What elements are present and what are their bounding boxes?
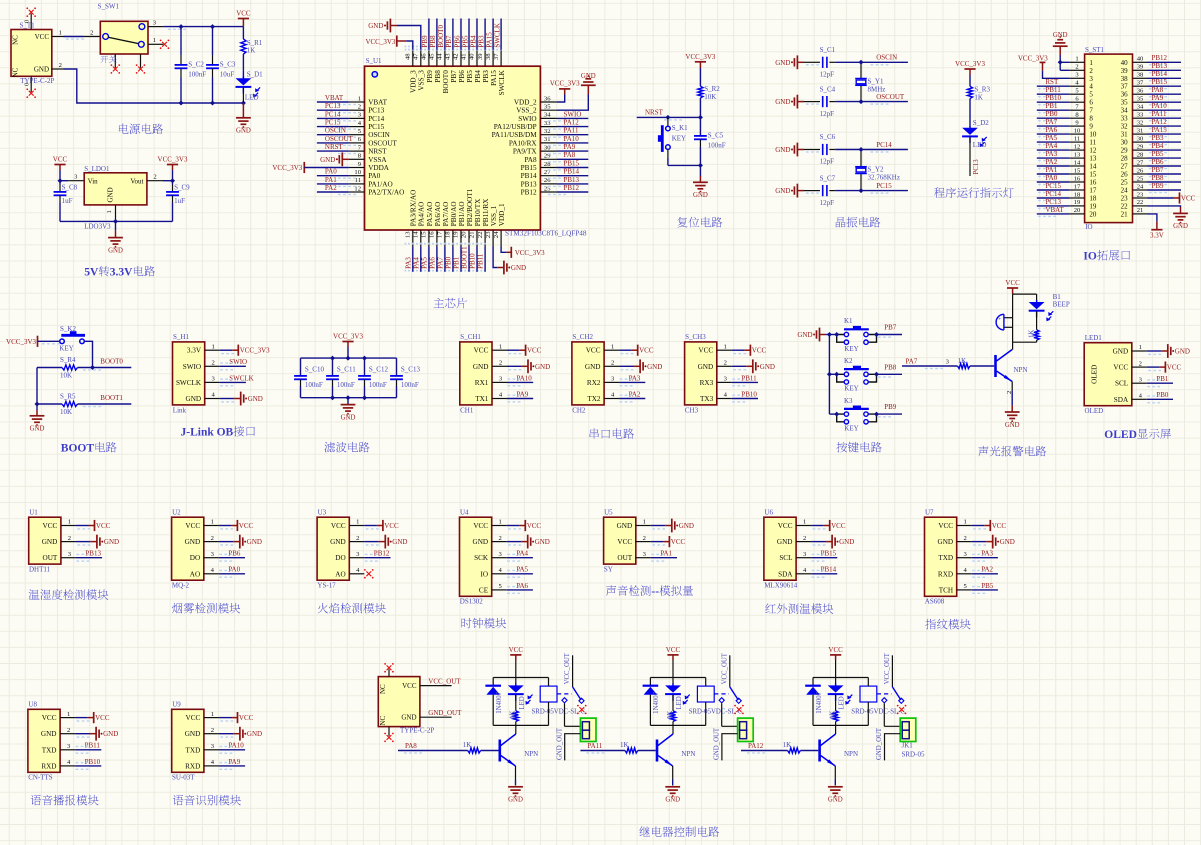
svg-text:DO: DO (190, 554, 200, 562)
svg-text:Link: Link (173, 406, 187, 414)
svg-text:U8: U8 (28, 701, 37, 709)
svg-text:GND: GND (1113, 348, 1129, 356)
svg-text:RXD: RXD (185, 762, 200, 770)
svg-text:GND: GND (185, 730, 201, 738)
svg-text:15: 15 (1074, 167, 1081, 174)
wire NRST (637, 108, 701, 120)
op-amp U1 main chip body S_U1 (365, 57, 587, 237)
svg-text:U3: U3 (318, 508, 327, 516)
caption 温湿度检测模块 (29, 589, 109, 600)
svg-text:PA10: PA10 (564, 135, 580, 143)
svg-text:37: 37 (1137, 80, 1144, 87)
terminal block stage PA8 (556, 703, 596, 760)
svg-text:LED: LED (839, 696, 846, 709)
relay switch stage PA12 (882, 652, 904, 703)
svg-text:PB14: PB14 (521, 172, 537, 180)
svg-text:36: 36 (1121, 91, 1129, 99)
svg-text:PB10: PB10 (741, 390, 757, 398)
svg-text:PB5: PB5 (466, 70, 474, 83)
svg-text:1N4007: 1N4007 (496, 691, 503, 714)
svg-text:VCC: VCC (671, 538, 686, 546)
svg-text:3.3V: 3.3V (110, 267, 133, 279)
svg-text:AO: AO (335, 570, 345, 578)
svg-text:GND: GND (42, 538, 58, 546)
svg-text:31: 31 (1137, 127, 1144, 134)
svg-text:28: 28 (1121, 155, 1129, 163)
svg-text:PB1: PB1 (453, 256, 461, 269)
svg-text:VCC: VCC (42, 714, 57, 722)
caption 电源电路 (119, 124, 163, 134)
svg-text:VSS_1: VSS_1 (490, 205, 498, 226)
svg-text:22: 22 (1137, 199, 1144, 206)
terminal block stage PA12 (876, 703, 916, 760)
svg-text:1K: 1K (1028, 330, 1035, 338)
diode 1N4007 relay stage PA8 (485, 678, 503, 726)
svg-text:3.3V: 3.3V (187, 347, 202, 355)
svg-text:PB3: PB3 (482, 70, 490, 83)
resistor 1K alarm (1028, 330, 1039, 343)
wire net PB10 at S_CH3 pin 4 (685, 333, 732, 414)
IO right net wires (1148, 54, 1182, 193)
svg-text:13: 13 (405, 231, 412, 238)
svg-text:VCC_OUT: VCC_OUT (721, 652, 728, 684)
svg-text:GND: GND (392, 538, 407, 546)
svg-text:PA3: PA3 (1045, 150, 1057, 158)
caption 语音识别模块 (173, 795, 241, 806)
svg-text:PB1: PB1 (1045, 102, 1058, 110)
svg-text:GND: GND (473, 538, 489, 546)
svg-text:VCC: VCC (752, 347, 767, 355)
svg-text:PA8: PA8 (405, 742, 417, 750)
svg-text:37: 37 (1121, 83, 1129, 91)
svg-text:35: 35 (1137, 96, 1144, 103)
svg-text:PA7/AO: PA7/AO (442, 202, 450, 227)
wire VCC to LDO Vin (60, 170, 84, 181)
svg-text:S_LDO1: S_LDO1 (84, 165, 110, 173)
svg-text:32: 32 (1137, 119, 1144, 126)
svg-text:VCC_3V3: VCC_3V3 (240, 347, 270, 355)
svg-text:GND: GND (585, 363, 601, 371)
svg-text:S_C8: S_C8 (62, 184, 78, 192)
svg-text:1: 1 (211, 711, 214, 718)
caption 按键电路 (836, 442, 881, 453)
svg-text:OSCOUT: OSCOUT (368, 139, 397, 147)
svg-text:16: 16 (1074, 175, 1081, 182)
svg-text:RXD: RXD (938, 570, 953, 578)
svg-text:PA0: PA0 (325, 168, 337, 176)
svg-text:PB6: PB6 (228, 550, 241, 558)
svg-text:VCC: VCC (96, 522, 111, 530)
svg-text:STM32F103C8T6_LQFP48: STM32F103C8T6_LQFP48 (505, 229, 587, 237)
svg-text:MLX90614: MLX90614 (764, 582, 798, 590)
svg-text:BOOT: BOOT (61, 443, 95, 455)
svg-text:S_C7: S_C7 (820, 174, 836, 182)
svg-text:SY: SY (604, 566, 613, 574)
svg-text:1: 1 (1075, 56, 1078, 63)
wire relay top rail (493, 677, 548, 679)
svg-text:1: 1 (964, 519, 967, 526)
no-ERC marker relay connector bottom (384, 733, 394, 743)
svg-text:1K: 1K (510, 711, 517, 719)
svg-text:1K: 1K (829, 711, 836, 719)
svg-text:S_C12: S_C12 (369, 365, 389, 373)
svg-text:1: 1 (643, 519, 646, 526)
svg-text:RX2: RX2 (587, 379, 601, 387)
wire base PA12 (741, 741, 818, 754)
svg-text:S_U1: S_U1 (366, 57, 382, 65)
svg-text:S_K1: S_K1 (672, 124, 688, 132)
svg-text:1N4007: 1N4007 (653, 691, 660, 714)
svg-text:PB15: PB15 (821, 550, 837, 558)
svg-text:1: 1 (59, 29, 62, 36)
svg-text:PC13: PC13 (325, 102, 341, 110)
svg-text:PA4/AO: PA4/AO (418, 202, 426, 227)
ground GND at S_H1 pin 4 (173, 333, 220, 414)
power VCC relay stage PA11 (666, 646, 681, 660)
svg-text:VCC_3V3: VCC_3V3 (272, 164, 302, 172)
svg-text:GND_OUT: GND_OUT (556, 727, 563, 760)
svg-text:GND: GND (581, 73, 596, 80)
svg-text:GND: GND (665, 797, 680, 804)
capacitor S_C6 and crystal S_Y2 32.768KHz (775, 133, 908, 166)
svg-text:1: 1 (724, 343, 727, 350)
svg-text:PA12/USB/DP: PA12/USB/DP (494, 123, 537, 131)
svg-text:DO: DO (335, 554, 345, 562)
svg-text:24: 24 (1137, 183, 1144, 190)
relay coil stage PA8 (532, 678, 586, 726)
svg-text:PA2: PA2 (981, 566, 993, 574)
svg-text:34: 34 (1121, 107, 1129, 115)
svg-text:PB10: PB10 (469, 253, 477, 269)
wire base PA11 (580, 741, 655, 754)
svg-text:BOOT1: BOOT1 (461, 246, 469, 269)
svg-text:PA2: PA2 (1045, 158, 1057, 166)
svg-text:30: 30 (1121, 139, 1129, 147)
svg-text:12: 12 (1089, 147, 1097, 155)
ground GND boot (30, 410, 45, 433)
svg-text:PA3: PA3 (981, 550, 993, 558)
caption 晶振电路 (836, 217, 881, 228)
svg-text:S_C3: S_C3 (220, 61, 236, 69)
svg-text:OSCOUT: OSCOUT (876, 93, 905, 101)
svg-text:PB6: PB6 (458, 70, 466, 83)
svg-text:PB10: PB10 (1045, 94, 1061, 102)
svg-text:SRD-05VDC-SL-C: SRD-05VDC-SL-C (689, 708, 743, 715)
svg-text:PB6: PB6 (453, 35, 461, 48)
wire relay top rail (813, 677, 868, 679)
svg-text:24: 24 (1121, 187, 1129, 195)
svg-text:U2: U2 (172, 508, 181, 516)
svg-text:LED: LED (676, 696, 683, 709)
svg-text:NC: NC (12, 35, 20, 45)
wire alarm top rail (1013, 293, 1037, 295)
wire net PA2 at S_CH2 pin 4 (572, 333, 619, 414)
svg-text:SWCLK: SWCLK (176, 379, 202, 387)
wire net PA6 at U4 pin 5 (460, 508, 507, 605)
svg-text:36: 36 (544, 95, 551, 102)
svg-text:PB3: PB3 (1152, 134, 1165, 142)
svg-text:LDO3V3: LDO3V3 (84, 223, 111, 231)
svg-text:GND: GND (185, 538, 201, 546)
svg-text:GND: GND (401, 714, 416, 722)
svg-text:VCC: VCC (331, 522, 346, 530)
no-ERC marker relay switch (734, 705, 744, 715)
svg-text:VCC: VCC (639, 347, 654, 355)
svg-text:PB10: PB10 (85, 758, 101, 766)
svg-text:TXD: TXD (186, 746, 201, 754)
svg-text:SRD-05VDC-SL-C: SRD-05VDC-SL-C (532, 708, 586, 715)
svg-text:18: 18 (1074, 191, 1081, 198)
junction button K3 right (874, 412, 879, 417)
push button K2 KEY (829, 357, 876, 393)
svg-text:14: 14 (1074, 159, 1081, 166)
chip pin stubs (349, 50, 557, 247)
svg-text:PB11: PB11 (85, 742, 101, 750)
buzzer B1 BEEP (996, 293, 1070, 342)
wire S_T1 GND to bottom rail (52, 62, 244, 103)
svg-text:PA2: PA2 (629, 390, 641, 398)
wire net PB10 at U8 pin 4 (28, 701, 75, 782)
regulator S_LDO1 LDO3V3 (84, 165, 147, 231)
svg-text:4: 4 (1089, 83, 1093, 91)
svg-text:S_C13: S_C13 (401, 365, 421, 373)
caption OLED显示屏 (1104, 429, 1171, 441)
junction button K2 right (874, 372, 879, 377)
wire net PA9 at S_CH1 pin 4 (460, 333, 507, 414)
svg-text:PC14: PC14 (325, 110, 341, 118)
svg-text:PA0: PA0 (1045, 174, 1057, 182)
svg-text:S_R3: S_R3 (974, 86, 990, 94)
transistor Q1 NPN alarm (996, 342, 1028, 381)
svg-text:SDA: SDA (778, 570, 793, 578)
svg-text:18: 18 (1089, 195, 1097, 203)
ground GND at chip VSS_2 pin 35 (557, 73, 596, 110)
wire net PA1 at U5 pin 3 (604, 508, 651, 573)
junction PC14 (859, 147, 864, 152)
svg-text:S_Y2: S_Y2 (868, 166, 884, 174)
svg-text:22: 22 (477, 232, 484, 239)
svg-text:PB15: PB15 (1152, 78, 1168, 86)
svg-text:14: 14 (1089, 163, 1097, 171)
svg-text:48: 48 (405, 53, 412, 60)
ground GND filter (341, 398, 356, 422)
svg-text:27: 27 (1121, 163, 1129, 171)
connector S_ST1 IO expansion (1085, 46, 1133, 231)
capacitor S_C10 100nF (294, 358, 324, 398)
svg-text:VCC: VCC (236, 10, 251, 18)
LED relay stage PA12 (828, 678, 853, 711)
svg-text:PA10: PA10 (1152, 102, 1168, 110)
svg-text:CH3: CH3 (685, 406, 699, 414)
svg-text:OSCIN: OSCIN (325, 127, 346, 135)
no-ERC marker top of S_T1 (26, 7, 36, 17)
capacitor S_C13 100nF (390, 358, 420, 398)
svg-text:6: 6 (1089, 99, 1093, 107)
svg-text:2: 2 (724, 360, 727, 367)
svg-text:PB12: PB12 (374, 550, 390, 558)
svg-text:DHT11: DHT11 (29, 566, 51, 574)
svg-text:17: 17 (1089, 187, 1097, 195)
caption 时钟模块 (462, 618, 507, 628)
svg-text:OLED: OLED (1085, 407, 1104, 415)
svg-text:GND: GND (775, 187, 790, 195)
wire relay bottom rail (493, 724, 548, 726)
svg-text:VCC_3V3: VCC_3V3 (550, 79, 580, 87)
svg-text:PA3: PA3 (629, 374, 641, 382)
svg-text:PA1: PA1 (325, 176, 337, 184)
svg-text:S_SW1: S_SW1 (98, 3, 120, 11)
svg-text:VCC: VCC (527, 522, 542, 530)
svg-text:K1: K1 (844, 317, 853, 325)
wire switch pin3 to VCC rail (148, 19, 243, 30)
svg-text:VSSA: VSSA (368, 156, 387, 164)
svg-text:PC15: PC15 (325, 119, 341, 127)
chip pin names (368, 69, 537, 226)
svg-text:U4: U4 (460, 508, 469, 516)
svg-text:VCC: VCC (1181, 195, 1196, 203)
caption 继电器控制电路 (639, 826, 719, 837)
svg-text:PB13: PB13 (521, 180, 537, 188)
switch S_SW1 (98, 3, 148, 68)
svg-text:12pF: 12pF (820, 158, 835, 166)
power VCC_3V3 at chip VDDA pin 9 (272, 162, 349, 173)
svg-text:PA11/USB/DM: PA11/USB/DM (492, 131, 538, 139)
chip bottom net wires (404, 246, 485, 272)
caption 声音检测--模拟量 (606, 585, 693, 598)
svg-text:20: 20 (1089, 210, 1097, 218)
relay switch stage PA11 (719, 652, 741, 703)
svg-text:VCC_3V3: VCC_3V3 (515, 249, 545, 257)
svg-text:PB9: PB9 (421, 35, 429, 48)
svg-text:30: 30 (1137, 135, 1144, 142)
caption 语音播报模块 (31, 795, 99, 806)
svg-text:PA5: PA5 (421, 257, 429, 269)
svg-text:PB8: PB8 (434, 70, 442, 83)
svg-text:S_C10: S_C10 (305, 365, 325, 373)
svg-text:PA9: PA9 (564, 143, 576, 151)
svg-text:SRD-05: SRD-05 (902, 750, 925, 758)
no-ERC marker at U3 pin 4 (317, 508, 364, 589)
svg-text:VCC_OUT: VCC_OUT (428, 677, 461, 685)
svg-text:NC: NC (379, 716, 387, 726)
junction key bus top (827, 332, 832, 337)
svg-text:PB4: PB4 (1152, 142, 1165, 150)
svg-text:VCC_3V3: VCC_3V3 (685, 53, 715, 61)
svg-text:2: 2 (499, 360, 502, 367)
resistor S_R4 10K (37, 356, 131, 380)
svg-text:VCC: VCC (1113, 364, 1128, 372)
caption 滤波电路 (324, 442, 369, 453)
svg-text:PA10: PA10 (517, 374, 533, 382)
svg-text:PA1: PA1 (660, 550, 672, 558)
svg-text:OSCIN: OSCIN (876, 54, 897, 62)
junction PC15 (859, 188, 864, 193)
svg-text:GND: GND (368, 22, 383, 30)
svg-text:PB13: PB13 (85, 550, 101, 558)
svg-text:PB13: PB13 (1152, 62, 1168, 70)
svg-text:PA7: PA7 (906, 358, 918, 366)
svg-text:PB8: PB8 (884, 363, 897, 371)
svg-text:TX3: TX3 (700, 395, 714, 403)
svg-text:PB0: PB0 (1156, 391, 1169, 399)
svg-text:BOOT0: BOOT0 (437, 25, 445, 48)
svg-text:PB1/AO: PB1/AO (458, 201, 466, 226)
svg-text:NC: NC (379, 684, 387, 694)
power VCC_3V3 at chip VDD_1 pin 24 (501, 247, 545, 258)
svg-text:1: 1 (499, 519, 502, 526)
svg-text:23: 23 (485, 231, 492, 238)
svg-text:26: 26 (1137, 167, 1144, 174)
svg-text:2: 2 (803, 535, 806, 542)
svg-text:TCH: TCH (939, 586, 953, 594)
svg-text:VCC_OUT: VCC_OUT (564, 652, 571, 684)
svg-text:2: 2 (358, 104, 361, 111)
svg-text:IO: IO (481, 570, 489, 578)
svg-text:PA9: PA9 (1152, 94, 1164, 102)
svg-text:U7: U7 (925, 508, 934, 516)
junction LDO input (58, 178, 63, 183)
svg-text:PA6/AO: PA6/AO (434, 202, 442, 227)
svg-text:NRST: NRST (368, 148, 387, 156)
svg-text:2: 2 (211, 535, 214, 542)
wire key bottom rail (668, 164, 701, 166)
svg-text:PA12: PA12 (1152, 118, 1168, 126)
svg-text:S_CH3: S_CH3 (685, 333, 706, 341)
svg-text:U9: U9 (172, 701, 181, 709)
svg-text:S_CH1: S_CH1 (460, 333, 481, 341)
svg-text:10uF: 10uF (220, 70, 235, 78)
svg-text:BOOT0: BOOT0 (100, 357, 123, 365)
svg-text:VDD_1: VDD_1 (498, 203, 506, 226)
svg-text:VCC: VCC (586, 347, 601, 355)
svg-text:37: 37 (493, 53, 500, 60)
ground GND of LDO (108, 221, 123, 254)
svg-text:PA10: PA10 (228, 742, 244, 750)
junction reset gnd (698, 163, 703, 168)
capacitor S_C1 and crystal S_Y1 8MHz (775, 46, 908, 79)
svg-text:27: 27 (1137, 159, 1144, 166)
svg-text:GND: GND (30, 426, 45, 433)
svg-text:1: 1 (1089, 59, 1093, 67)
svg-text:25: 25 (1137, 175, 1144, 182)
no-ERC marker relay connector top (384, 663, 394, 673)
svg-text:1K: 1K (620, 741, 629, 749)
svg-text:2: 2 (643, 535, 646, 542)
svg-text:LED1: LED1 (1085, 334, 1103, 342)
svg-text:16: 16 (1089, 179, 1097, 187)
junction OSCOUT (859, 99, 864, 104)
wire LDO Vout to VCC_3V3 (147, 174, 173, 181)
svg-text:SWIO: SWIO (183, 363, 201, 371)
junction key bus K2 (827, 372, 832, 377)
caption 主芯片 (434, 298, 467, 308)
svg-text:GND: GND (247, 730, 262, 738)
svg-text:34: 34 (1137, 104, 1144, 111)
svg-text:12pF: 12pF (820, 110, 835, 118)
caption IO拓展口 (1083, 250, 1130, 263)
svg-text:VSS_3: VSS_3 (418, 70, 426, 91)
svg-text:PA2: PA2 (325, 184, 337, 192)
svg-text:1uF: 1uF (174, 197, 185, 205)
svg-text:2: 2 (1139, 360, 1142, 367)
power VCC_3V3 at chip VDD_3 pin 48 (365, 36, 412, 50)
svg-text:SWIO: SWIO (518, 115, 536, 123)
svg-text:U5: U5 (604, 508, 613, 516)
svg-text:NPN: NPN (844, 750, 858, 758)
ground GND IO pin22 (1148, 206, 1188, 230)
LED S_D2 (962, 119, 989, 176)
svg-text:PA8: PA8 (1152, 86, 1164, 94)
